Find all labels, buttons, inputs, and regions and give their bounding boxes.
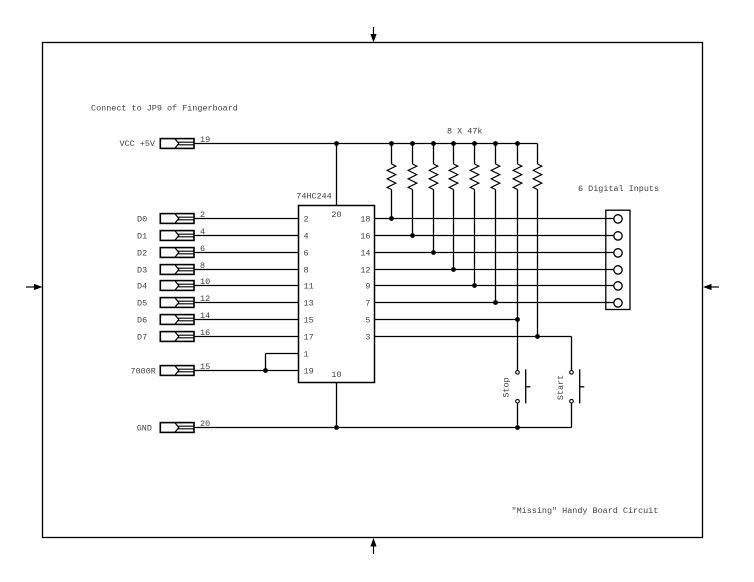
svg-text:15: 15 <box>304 315 314 325</box>
svg-text:Start: Start <box>556 375 566 400</box>
svg-text:10: 10 <box>331 370 341 380</box>
svg-text:9: 9 <box>365 281 370 291</box>
svg-text:7: 7 <box>365 298 370 308</box>
svg-text:13: 13 <box>304 298 314 308</box>
svg-text:12: 12 <box>360 265 370 275</box>
svg-text:2: 2 <box>304 214 309 224</box>
svg-text:3: 3 <box>365 332 370 342</box>
svg-text:18: 18 <box>360 214 370 224</box>
svg-text:20: 20 <box>331 210 341 220</box>
svg-text:7000R: 7000R <box>131 366 156 376</box>
svg-text:"Missing" Handy Board Circuit: "Missing" Handy Board Circuit <box>512 506 659 516</box>
svg-text:6: 6 <box>304 248 309 258</box>
svg-text:D6: D6 <box>137 315 147 325</box>
svg-text:D4: D4 <box>137 281 147 291</box>
svg-text:GND: GND <box>137 423 152 433</box>
svg-text:Stop: Stop <box>502 377 512 397</box>
svg-text:8 X 47k: 8 X 47k <box>447 126 482 136</box>
svg-text:1: 1 <box>304 349 309 359</box>
svg-text:D1: D1 <box>137 231 147 241</box>
svg-text:D2: D2 <box>137 248 147 258</box>
svg-text:4: 4 <box>304 231 309 241</box>
svg-text:19: 19 <box>304 366 314 376</box>
svg-text:17: 17 <box>304 332 314 342</box>
svg-text:VCC +5V: VCC +5V <box>120 139 156 149</box>
svg-text:D5: D5 <box>137 298 147 308</box>
svg-text:6 Digital Inputs: 6 Digital Inputs <box>578 184 659 194</box>
svg-text:74HC244: 74HC244 <box>296 191 331 201</box>
svg-text:Connect to JP9 of Fingerboard: Connect to JP9 of Fingerboard <box>91 103 238 113</box>
svg-text:11: 11 <box>304 281 314 291</box>
svg-text:14: 14 <box>360 248 370 258</box>
svg-text:D3: D3 <box>137 265 147 275</box>
svg-text:5: 5 <box>365 315 370 325</box>
svg-text:8: 8 <box>304 265 309 275</box>
svg-text:D0: D0 <box>137 214 147 224</box>
svg-text:16: 16 <box>360 231 370 241</box>
svg-text:D7: D7 <box>137 332 147 342</box>
